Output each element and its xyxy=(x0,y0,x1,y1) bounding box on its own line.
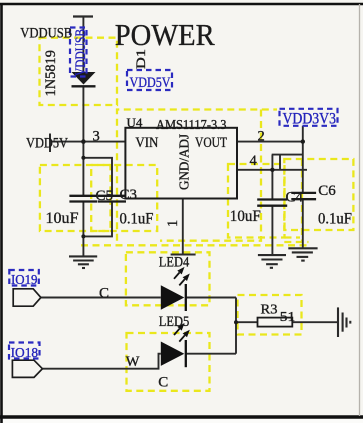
svg-text:GND/ADJ: GND/ADJ xyxy=(178,133,193,190)
wire loop stub xyxy=(279,155,281,170)
svg-text:3: 3 xyxy=(93,129,100,145)
highlight box LED4 xyxy=(126,252,210,305)
svg-text:C: C xyxy=(99,285,109,301)
pin 1 wire xyxy=(182,199,184,255)
svg-text:C5: C5 xyxy=(96,188,114,204)
svg-text:2: 2 xyxy=(258,129,265,145)
wire join to R3 xyxy=(236,321,258,323)
capacitor C6 plates xyxy=(291,193,316,199)
svg-text:1N5819: 1N5819 xyxy=(43,50,59,97)
svg-text:0.1uF: 0.1uF xyxy=(318,211,352,228)
wire R3 to ground xyxy=(292,321,338,323)
net label box IO18 xyxy=(9,343,40,359)
svg-text:R3: R3 xyxy=(261,303,278,318)
svg-text:C4: C4 xyxy=(286,190,304,206)
diode D1 xyxy=(72,72,96,86)
svg-text:10uF: 10uF xyxy=(230,208,261,225)
junction C4 branch xyxy=(270,168,274,172)
wire loop top C3 xyxy=(83,158,112,196)
highlight box C6 xyxy=(284,159,353,230)
junction C3 branch top xyxy=(81,156,85,160)
svg-text:C: C xyxy=(158,375,168,391)
highlight segment C6 inner bottom xyxy=(284,241,308,243)
svg-text:W: W xyxy=(126,354,140,370)
svg-text:VOUT: VOUT xyxy=(195,135,227,151)
svg-text:POWER: POWER xyxy=(115,17,215,52)
highlight box C4 xyxy=(228,164,285,238)
highlight box R3 xyxy=(238,295,302,335)
wire VDD5V to pin 3 xyxy=(50,141,125,143)
wire rail through C5 upper xyxy=(82,142,84,196)
wire rail down to C6 xyxy=(302,142,304,193)
wire C6 to ground xyxy=(302,199,304,248)
capacitor C4 plates xyxy=(257,200,287,206)
power port bar VDD5V xyxy=(49,134,51,153)
svg-text:AMS1117-3.3: AMS1117-3.3 xyxy=(156,118,227,133)
wire LED5 cathode to join xyxy=(186,353,236,355)
yellow highlight boxes xyxy=(40,38,354,391)
wire IO18 to LED5 xyxy=(42,354,160,369)
svg-text:10uF: 10uF xyxy=(46,210,79,227)
svg-text:C3: C3 xyxy=(120,187,138,203)
highlight segment C4 bottom extension xyxy=(285,236,301,238)
svg-text:VIN: VIN xyxy=(135,135,158,151)
wire LED4 cathode to join xyxy=(186,297,236,299)
wire pin4 net to rail xyxy=(272,154,303,156)
ground below C4 xyxy=(258,255,286,268)
wire VDDUSB bar to diode xyxy=(82,17,84,73)
svg-text:IO18: IO18 xyxy=(11,346,38,361)
net label box VDD3V3 xyxy=(280,109,338,126)
capacitor C5 plates xyxy=(69,196,97,202)
junction VDD5V rail xyxy=(81,139,86,144)
highlight box LED5 xyxy=(127,333,210,391)
wire VDD3V3 stub xyxy=(302,126,304,142)
highlight box diode D1 xyxy=(40,38,118,105)
wires and symbols xyxy=(41,17,338,369)
svg-text:LED4: LED4 xyxy=(159,255,190,271)
svg-text:D1: D1 xyxy=(133,49,148,69)
regulator U4 body xyxy=(125,128,237,199)
wire loop bottom C3 xyxy=(83,202,112,237)
wire C4 to ground xyxy=(271,206,273,255)
highlight long bottom segment xyxy=(81,244,308,246)
junction VDD3V3 rail xyxy=(301,139,305,143)
highlight box C3 xyxy=(91,165,157,231)
wire rail through C5 lower xyxy=(82,202,84,256)
LED4 xyxy=(161,267,190,311)
highlight segment C6 inner vertical xyxy=(301,159,303,242)
svg-text:VDDUSB: VDDUSB xyxy=(73,29,89,76)
blue dashed net label boxes xyxy=(9,28,338,359)
wire cathode join vertical xyxy=(235,298,237,354)
net label box IO19 xyxy=(9,270,39,286)
svg-text:4: 4 xyxy=(250,153,258,169)
svg-text:VDD3V3: VDD3V3 xyxy=(283,111,337,128)
power port bar VDDUSB xyxy=(73,15,93,17)
ground below C6 xyxy=(288,248,317,260)
wire pin 2 VOUT xyxy=(237,141,303,143)
capacitor C3 plates xyxy=(98,196,126,202)
port IO19 xyxy=(13,289,41,306)
svg-text:C6: C6 xyxy=(318,183,336,199)
net label box VDDUSB xyxy=(70,28,87,77)
junction LED cathode join xyxy=(234,320,238,324)
wire diode to VDD5V rail xyxy=(82,86,84,141)
ground below C5 xyxy=(69,256,97,268)
ground right of R3 xyxy=(338,307,350,337)
svg-text:VDDUSB: VDDUSB xyxy=(20,26,72,42)
junction C3 branch bottom xyxy=(81,234,85,238)
svg-text:51: 51 xyxy=(280,310,296,325)
highlight box regulator U4 xyxy=(117,110,277,241)
svg-text:1: 1 xyxy=(165,220,181,227)
svg-text:LED5: LED5 xyxy=(159,314,190,330)
highlight box C5 xyxy=(40,165,111,231)
svg-text:U4: U4 xyxy=(127,115,143,130)
pin 1 end bar xyxy=(171,254,196,256)
wire down to C4 xyxy=(271,155,273,200)
wire IO19 to LED4 xyxy=(41,297,161,299)
wire pin 4 xyxy=(237,169,307,171)
svg-text:IO19: IO19 xyxy=(11,273,38,288)
resistor R3 xyxy=(258,318,293,327)
port IO18 xyxy=(12,360,42,377)
net label box VDD5V xyxy=(127,70,172,90)
LED5 xyxy=(161,323,190,367)
svg-text:VDD5V: VDD5V xyxy=(130,75,171,91)
svg-text:VDD5V: VDD5V xyxy=(26,136,68,152)
svg-text:0.1uF: 0.1uF xyxy=(120,211,154,228)
